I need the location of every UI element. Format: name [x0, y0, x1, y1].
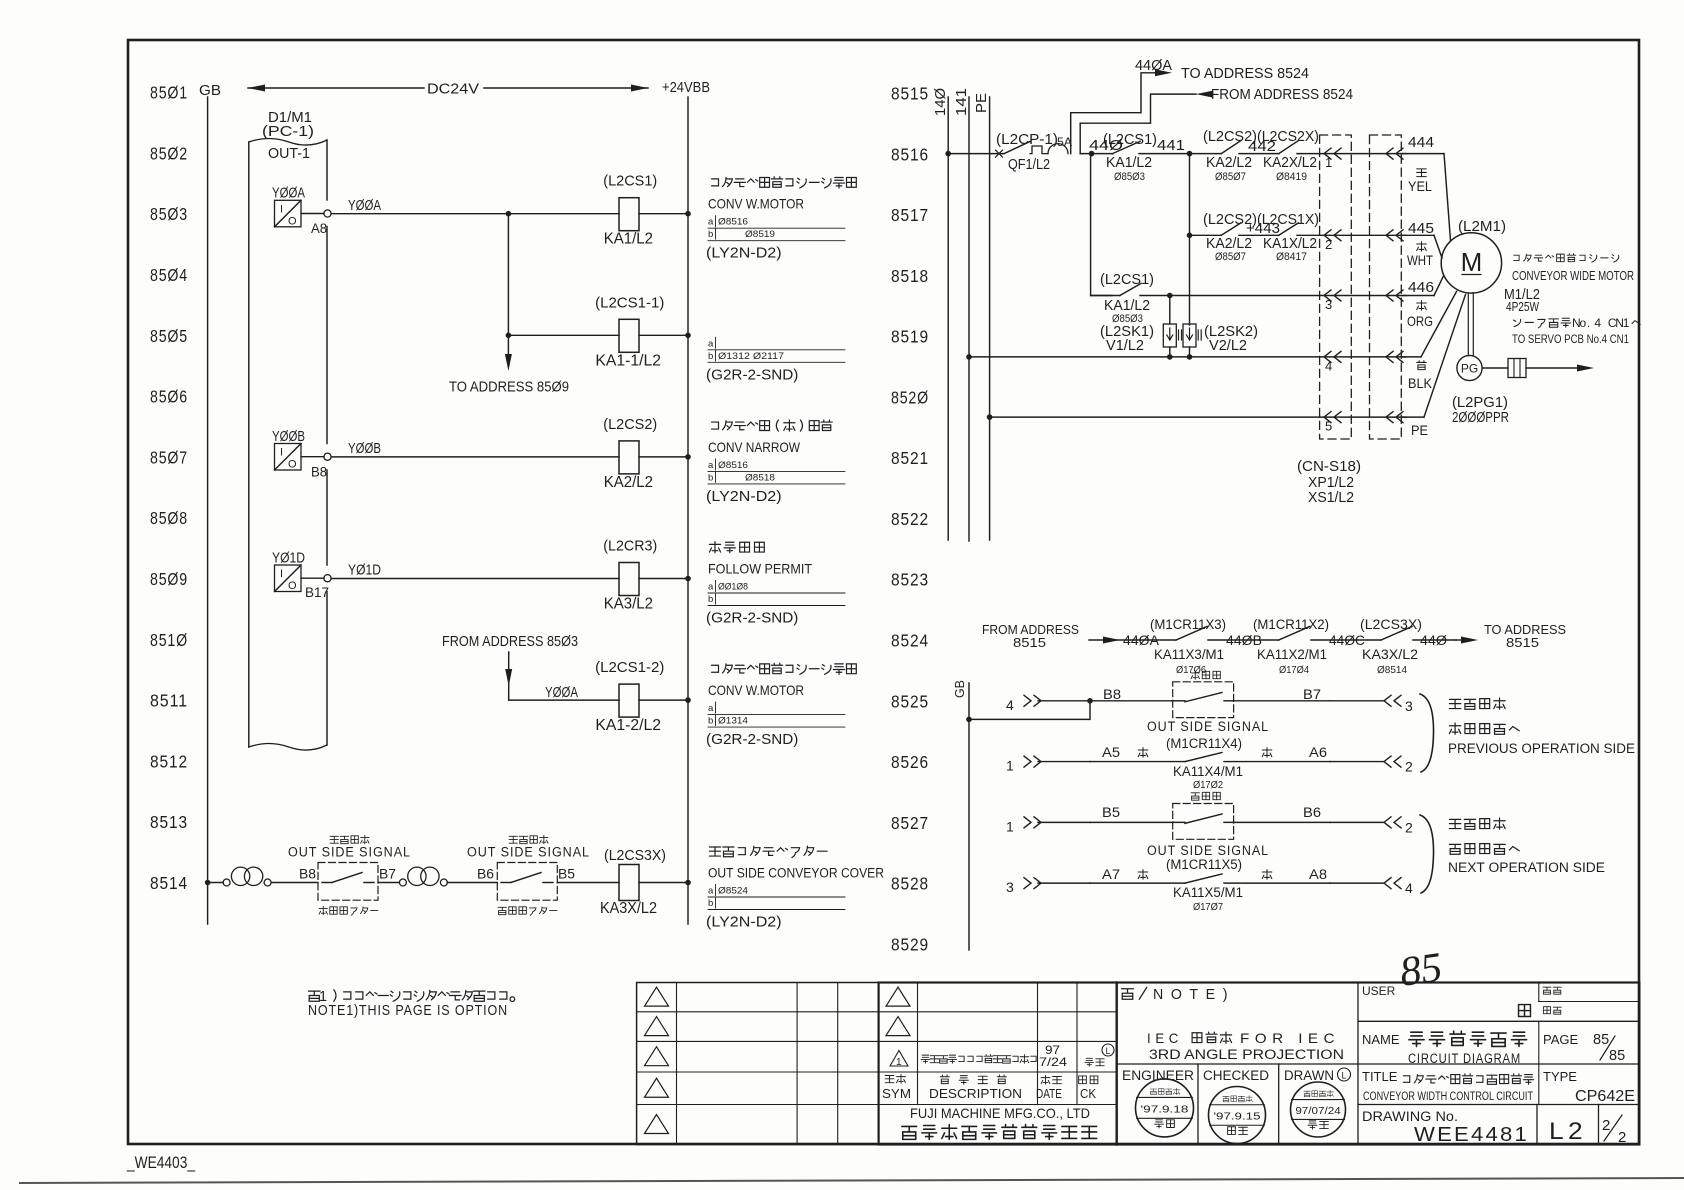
svg-text:(G2R-2-SND): (G2R-2-SND) [706, 366, 798, 383]
svg-text:44ØC: 44ØC [1329, 633, 1365, 648]
motor shaft [1467, 293, 1469, 356]
entry arrow 4 row 8525 [1006, 695, 1090, 713]
svg-text:PAGE: PAGE [1543, 1032, 1578, 1047]
svg-text:(LY2N-D2): (LY2N-D2) [706, 488, 782, 505]
svg-text:B8: B8 [299, 867, 316, 882]
NAME cell [1362, 1031, 1527, 1066]
svg-text:A8: A8 [311, 220, 327, 236]
exit arrow 4 row 8528 [1330, 878, 1413, 897]
svg-text:KA11X2/M1: KA11X2/M1 [1257, 647, 1327, 662]
svg-text:444: 444 [1408, 135, 1434, 151]
svg-text:2ØØØPPR: 2ØØØPPR [1452, 409, 1509, 426]
svg-text:YØØA: YØØA [348, 198, 381, 214]
junction 141 row V [966, 354, 972, 360]
motor wire PE [1402, 295, 1466, 439]
contact KA11X2/M1 (M1CR11X2) [1253, 617, 1381, 676]
svg-text:A7: A7 [1102, 867, 1120, 882]
header DESCRIPTION [929, 1075, 1022, 1101]
wire branch 440 down to row 8518 [1091, 154, 1112, 296]
svg-text:FROM ADDRESS 8524: FROM ADDRESS 8524 [1211, 87, 1353, 103]
svg-text:(L2CS1-2): (L2CS1-2) [595, 659, 664, 676]
svg-text:V1/L2: V1/L2 [1106, 338, 1144, 354]
svg-text:85Ø5: 85Ø5 [150, 326, 188, 346]
wire GB to 8525 [966, 698, 1093, 722]
svg-text:B5: B5 [558, 867, 575, 882]
svg-text:GB: GB [199, 82, 221, 99]
stamp checked yamamoto [1209, 1087, 1266, 1144]
svg-text:YØ1D: YØ1D [348, 563, 381, 579]
DRAWING No cell [1362, 1109, 1529, 1146]
junction V1 bottom [1167, 354, 1173, 360]
wire 8516 segment 2 [1080, 153, 1113, 155]
PLC output Y00A [272, 186, 331, 237]
svg-text:DC24V: DC24V [427, 81, 479, 98]
svg-text:85Ø2: 85Ø2 [150, 143, 188, 163]
svg-text:8524: 8524 [891, 631, 929, 651]
cable pass-through symbol 2 [399, 867, 447, 886]
IEC label [1147, 1030, 1340, 1046]
node GB right half [952, 680, 969, 950]
svg-text:(M1CR11X2): (M1CR11X2) [1253, 617, 1329, 632]
wire row V 8519 [969, 356, 1320, 358]
svg-text:KA2/L2: KA2/L2 [604, 474, 653, 491]
wire from-address-8524 branch [1080, 91, 1213, 154]
exit arrow 2 row 8526 [1330, 756, 1413, 775]
wire 8527 [1090, 821, 1173, 823]
door switch previous process row 8525 [1173, 682, 1234, 718]
svg-text:PE: PE [973, 93, 990, 113]
wire 8524 with arrow [1089, 637, 1176, 644]
motor wire 446 orange [1402, 276, 1444, 329]
motor M (L2M1) [1441, 219, 1506, 293]
svg-text:B5: B5 [1102, 805, 1120, 820]
svg-text:Ø85Ø3: Ø85Ø3 [1114, 171, 1145, 183]
svg-text:Ø8514: Ø8514 [1377, 664, 1407, 676]
wire 8525 [1090, 700, 1173, 702]
label gaibu shingo 1 [330, 835, 369, 843]
svg-text:8515: 8515 [1506, 635, 1539, 650]
note header [1122, 986, 1236, 1003]
svg-text:ORG: ORG [1407, 313, 1433, 329]
svg-text:8517: 8517 [891, 205, 929, 225]
connector pin 2 arrows [1320, 230, 1406, 252]
bus GB vertical [207, 97, 209, 924]
svg-text:USER: USER [1362, 984, 1396, 998]
svg-text:(L2CS2): (L2CS2) [603, 416, 657, 433]
connector pin 5 arrows [1320, 412, 1406, 434]
svg-text:ØØ1Ø8: ØØ1Ø8 [718, 582, 748, 593]
svg-text:DRAWN: DRAWN [1284, 1068, 1334, 1083]
svg-text:8529: 8529 [891, 934, 929, 954]
svg-text:441: 441 [1157, 138, 1185, 154]
junction 441 [1187, 151, 1193, 157]
svg-text:TO ADDRESS 85Ø9: TO ADDRESS 85Ø9 [449, 380, 569, 396]
svg-text:CHECKED: CHECKED [1203, 1068, 1269, 1083]
wire Y00B 8507 [331, 441, 619, 457]
svg-text:97/07/24: 97/07/24 [1295, 1106, 1341, 1117]
brace next operation [1420, 815, 1434, 893]
svg-text:14Ø: 14Ø [932, 88, 949, 116]
wire 8514 segment 4 [447, 882, 497, 884]
PAGE cell [1543, 1032, 1625, 1064]
connector pin 1 arrows [1320, 148, 1406, 170]
svg-text:CIRCUIT DIAGRAM: CIRCUIT DIAGRAM [1408, 1051, 1521, 1066]
svg-text:85Ø1: 85Ø1 [150, 83, 188, 103]
encoder PG (L2PG1) 2000PPR [1452, 355, 1594, 426]
svg-text:KA2/L2: KA2/L2 [1206, 236, 1252, 252]
PLC module D1/M1 (PC-1) OUT-1 box [249, 109, 327, 750]
svg-text:GB: GB [952, 680, 967, 698]
svg-text:I: I [280, 203, 283, 215]
svg-text:CONV W.MOTOR: CONV W.MOTOR [708, 682, 804, 698]
svg-text:85Ø9: 85Ø9 [150, 569, 188, 589]
svg-text:TYPE: TYPE [1543, 1069, 1577, 1084]
wire 8514 segment 2 [271, 882, 318, 884]
revision row 1 triangle [890, 1051, 908, 1067]
label gaibu shingo next [1448, 818, 1605, 875]
arrow to address 8515 [1461, 637, 1478, 644]
label CN-S18 [1297, 459, 1361, 506]
svg-text:L2: L2 [1549, 1118, 1587, 1145]
svg-text:DRAWING No.: DRAWING No. [1362, 1109, 1458, 1124]
svg-text:Ø8524: Ø8524 [718, 886, 748, 897]
svg-text:1: 1 [1623, 316, 1630, 330]
revision description [921, 1055, 1036, 1064]
svg-text:(M1CR11X3): (M1CR11X3) [1150, 617, 1226, 632]
svg-text:Ø8417: Ø8417 [1276, 251, 1307, 263]
svg-text:CONVEYOR WIDE MOTOR: CONVEYOR WIDE MOTOR [1512, 269, 1634, 283]
wire 8505 [508, 334, 619, 336]
svg-text:KA1/L2: KA1/L2 [604, 231, 653, 248]
junction surge killer 1 top [1167, 293, 1173, 299]
svg-text:(PC-1): (PC-1) [262, 123, 314, 140]
junction V2 bottom [1187, 354, 1193, 360]
svg-text:Ø17Ø4: Ø17Ø4 [1279, 664, 1309, 676]
header DATE [1036, 1075, 1062, 1101]
title block left revision table [637, 983, 879, 1145]
svg-text:2: 2 [1405, 759, 1413, 775]
label orange 2 row 8528 [1262, 870, 1272, 880]
junction 440 [1089, 151, 1095, 157]
brace previous operation [1420, 694, 1434, 772]
svg-text:L: L [1341, 1071, 1346, 1081]
svg-text:WEE4481: WEE4481 [1414, 1124, 1529, 1146]
relay coil KA1/L2 (L2CS1) [603, 173, 691, 248]
svg-text:b: b [708, 229, 713, 240]
contact KA1X/L2 (L2CS1X) row 8517 [1257, 212, 1320, 263]
svg-text:PE: PE [1411, 422, 1428, 438]
surge killer V1/L2 (L2SK1) [1100, 296, 1182, 357]
wire 8514 segment 3 [378, 882, 399, 884]
svg-text:(L2M1): (L2M1) [1458, 219, 1506, 235]
contact KA1/L2 (L2CS1) row 8516 [1103, 132, 1190, 183]
svg-text:8518: 8518 [891, 266, 929, 286]
svg-text:YEL: YEL [1408, 178, 1432, 194]
svg-text:85Ø7: 85Ø7 [150, 447, 188, 467]
contact KA2/L2 (L2CS2) row 8516 [1190, 129, 1279, 183]
svg-text:Ø85Ø7: Ø85Ø7 [1215, 171, 1246, 183]
svg-text:A8: A8 [1309, 867, 1327, 882]
bunban seiban cells [1543, 987, 1561, 1014]
svg-text:a: a [708, 460, 714, 471]
svg-text:O: O [288, 580, 297, 592]
entry arrow 3 row 8528 [1006, 878, 1090, 896]
svg-text:3: 3 [1325, 297, 1332, 312]
svg-text:B6: B6 [477, 867, 494, 882]
svg-text:Ø8419: Ø8419 [1276, 171, 1307, 183]
svg-text:a: a [708, 338, 714, 349]
bus +24VBB vertical [687, 97, 689, 924]
svg-text:TO ADDRESS 8524: TO ADDRESS 8524 [1181, 66, 1309, 82]
svg-text:4P25W: 4P25W [1506, 300, 1539, 314]
label maekotei cover [319, 906, 378, 915]
svg-text:YØ1D: YØ1D [272, 551, 305, 567]
svg-text:8515: 8515 [891, 84, 929, 104]
revision date 97 7/24 [1039, 1043, 1067, 1069]
header CK [1079, 1076, 1098, 1101]
svg-text:3: 3 [1006, 879, 1014, 895]
svg-text:(L2CS3X): (L2CS3X) [604, 847, 666, 864]
wire 8527 right [1234, 821, 1330, 823]
wire Y01D 8509 [331, 563, 619, 579]
wire to-address-8524 branch [1071, 69, 1172, 153]
terminal x mark [996, 150, 1003, 157]
contact KA11X4/M1 (M1CR11X4) [1090, 736, 1330, 791]
svg-text:85Ø8: 85Ø8 [150, 508, 188, 528]
svg-text:OUT SIDE CONVEYOR COVER: OUT SIDE CONVEYOR COVER [708, 866, 884, 881]
svg-text:B8: B8 [1103, 687, 1121, 702]
junction 8503 branch [506, 211, 512, 217]
svg-text:YØØA: YØØA [545, 685, 578, 701]
wire branch to 8505 and to-address-8509 arrow [505, 214, 512, 371]
svg-text:KA11X4/M1: KA11X4/M1 [1173, 764, 1243, 779]
svg-text:_WE4403_: _WE4403_ [126, 1153, 195, 1172]
connector XP1/XS1 dashed box 1 [1320, 135, 1352, 439]
label atokotei cover [498, 907, 557, 915]
company FUJI MACHINE MFG.CO., LTD [902, 1105, 1097, 1139]
PLC output Y00B [272, 429, 331, 480]
label maekotei row 8525 [1191, 671, 1220, 679]
relay coil KA1-2/L2 (L2CS1-2) [595, 659, 691, 734]
svg-text:a: a [708, 886, 714, 897]
motor wire 4 black [1402, 292, 1457, 392]
svg-text:2: 2 [1602, 1117, 1610, 1134]
svg-text:Ø8516: Ø8516 [718, 460, 748, 471]
svg-text:OUT SIDE SIGNAL: OUT SIDE SIGNAL [467, 845, 590, 860]
svg-text:Ø1314: Ø1314 [718, 716, 748, 727]
bus PE vertical [973, 93, 990, 540]
svg-text:8521: 8521 [891, 448, 929, 468]
svg-text:O: O [288, 215, 297, 227]
svg-text:B17: B17 [305, 584, 329, 600]
svg-text:8525: 8525 [891, 691, 929, 711]
svg-text:KA1/L2: KA1/L2 [1104, 298, 1150, 314]
address column 8501-8514 [150, 83, 188, 893]
label gaibu shingo previous [1448, 698, 1635, 756]
svg-text:1: 1 [1006, 818, 1014, 834]
svg-text:85Ø4: 85Ø4 [150, 265, 188, 285]
sheet 2/2 [1602, 1115, 1626, 1146]
entry arrow 1 row 8527 [1006, 817, 1090, 835]
svg-text:YØØA: YØØA [272, 186, 305, 202]
label gaibu shingo 2 [509, 835, 548, 843]
USER cell [1362, 984, 1530, 1016]
svg-text:V2/L2: V2/L2 [1209, 338, 1247, 354]
svg-text:KA1/L2: KA1/L2 [1106, 155, 1152, 171]
svg-text:a: a [708, 703, 714, 714]
svg-text:I: I [280, 447, 283, 459]
svg-text:B7: B7 [379, 867, 396, 882]
svg-text:2: 2 [1405, 819, 1413, 835]
cable pass-through symbol 1 [223, 867, 271, 886]
svg-text:FROM ADDRESS 85Ø3: FROM ADDRESS 85Ø3 [442, 634, 578, 650]
svg-text:KA2X/L2: KA2X/L2 [1263, 155, 1317, 171]
header SYM [882, 1074, 911, 1101]
svg-text:8513: 8513 [150, 812, 188, 832]
description 8514 outside conveyor cover [706, 846, 884, 930]
svg-text:b: b [708, 472, 713, 483]
svg-text:(G2R-2-SND): (G2R-2-SND) [706, 610, 798, 627]
TITLE cell [1362, 1069, 1534, 1103]
svg-text:b: b [708, 594, 713, 605]
svg-text:1: 1 [896, 1057, 902, 1068]
svg-text:8527: 8527 [891, 813, 929, 833]
wire 8516 from bus to breaker [948, 153, 1004, 155]
description 8503 conveyor width motor start [706, 177, 856, 262]
svg-text:L: L [1105, 1046, 1110, 1056]
svg-text:Ø8518: Ø8518 [745, 472, 775, 483]
revision by esaka [1085, 1058, 1104, 1066]
exit arrow 3 row 8525 [1330, 695, 1413, 714]
connector dashed box 2 [1370, 135, 1402, 439]
svg-text:QF1/L2: QF1/L2 [1008, 157, 1050, 173]
svg-text:B7: B7 [1303, 687, 1321, 702]
svg-text:TITLE: TITLE [1362, 1069, 1398, 1084]
svg-text:FUJI MACHINE MFG.CO., LTD: FUJI MACHINE MFG.CO., LTD [910, 1105, 1090, 1121]
label orange 2 row 8526 [1262, 748, 1272, 758]
svg-text:o: o [1579, 316, 1586, 330]
svg-text:KA1-2/L2: KA1-2/L2 [595, 717, 661, 734]
label conveyor wide motor [1504, 254, 1634, 314]
svg-text:85Ø6: 85Ø6 [150, 387, 188, 407]
svg-text:(M1CR11X4): (M1CR11X4) [1166, 736, 1242, 751]
svg-text:+24VBB: +24VBB [662, 79, 710, 96]
svg-text:TO SERVO PCB No.4 CN1: TO SERVO PCB No.4 CN1 [1512, 334, 1629, 346]
junction 140 8516 [945, 151, 951, 157]
svg-text:NOTE): NOTE) [1153, 986, 1235, 1003]
svg-text:CP642E: CP642E [1575, 1088, 1635, 1105]
svg-text:Ø8516: Ø8516 [718, 217, 748, 228]
svg-text:Ø17Ø2: Ø17Ø2 [1193, 779, 1223, 791]
svg-text:8519: 8519 [891, 327, 929, 347]
svg-text:(G2R-2-SND): (G2R-2-SND) [706, 731, 798, 748]
contact KA1/L2 (L2CS1) row 8518 [1091, 272, 1320, 325]
motor wire 445 white [1402, 221, 1442, 268]
svg-text:1: 1 [1006, 758, 1014, 774]
wire 8511 [509, 685, 619, 701]
stamp drawn esaka [1291, 1082, 1346, 1137]
svg-text:NAME: NAME [1362, 1032, 1400, 1047]
svg-text:B6: B6 [1303, 805, 1321, 820]
connector pin 3 arrows [1320, 290, 1406, 312]
relay coil KA1-1/L2 (L2CS1-1) [595, 294, 691, 369]
svg-text:85: 85 [1593, 1032, 1609, 1048]
svg-text:A6: A6 [1309, 745, 1327, 760]
svg-text:8512: 8512 [150, 751, 188, 771]
relay coil KA3/L2 (L2CR3) [603, 538, 691, 613]
svg-text:DATE: DATE [1036, 1087, 1062, 1101]
svg-text:KA3X/L2: KA3X/L2 [1362, 647, 1418, 662]
svg-text:IEC: IEC [1147, 1030, 1183, 1046]
bus 140 vertical [932, 88, 949, 540]
svg-text:85Ø3: 85Ø3 [150, 204, 188, 224]
label atokotei row 8527 [1191, 792, 1220, 800]
svg-text:SYM: SYM [882, 1087, 911, 1101]
junction 8505 [506, 333, 512, 339]
door switch next process row 8527 [1173, 804, 1234, 840]
svg-text:4: 4 [1325, 358, 1332, 373]
contact KA3X/L2 (L2CS3X) row 8524 [1360, 617, 1456, 676]
stamp engineer adachi [1136, 1079, 1194, 1137]
svg-text:Ø1312 Ø2117: Ø1312 Ø2117 [718, 351, 784, 362]
svg-text:8523: 8523 [891, 570, 929, 590]
scan edge line bottom [20, 1178, 1684, 1183]
description 8507 conveyor narrow [706, 420, 845, 505]
svg-text:XS1/L2: XS1/L2 [1308, 490, 1354, 506]
connector pin 4 arrows [1320, 351, 1406, 373]
svg-text:WHT: WHT [1407, 252, 1433, 268]
svg-text:OUT SIDE SIGNAL: OUT SIDE SIGNAL [1147, 719, 1269, 734]
svg-text:YØØB: YØØB [348, 441, 381, 457]
wire branch 441 down [1189, 154, 1191, 325]
svg-text:(L2CS1-1): (L2CS1-1) [595, 294, 664, 311]
svg-text:7/24: 7/24 [1039, 1055, 1067, 1069]
svg-text:KA1-1/L2: KA1-1/L2 [595, 352, 661, 369]
svg-text:(L2CR3): (L2CR3) [603, 538, 657, 555]
svg-text:4: 4 [1594, 316, 1601, 330]
label orange 1 row 8528 [1138, 870, 1148, 880]
wire 8514 left segment [208, 882, 224, 884]
svg-text:b: b [708, 716, 713, 727]
svg-text:KA1X/L2: KA1X/L2 [1263, 236, 1317, 252]
svg-text:4: 4 [1405, 880, 1413, 896]
label FROM ADDRESS 8515 [982, 622, 1079, 650]
svg-text:PG: PG [1461, 362, 1478, 376]
svg-text:446: 446 [1408, 280, 1434, 296]
svg-text:FOLLOW PERMIT: FOLLOW PERMIT [708, 561, 812, 577]
junction PE row [987, 414, 993, 420]
svg-text:ENGINEER: ENGINEER [1122, 1068, 1194, 1083]
svg-text:Ø17Ø6: Ø17Ø6 [1176, 664, 1206, 676]
svg-text:8522: 8522 [891, 509, 929, 529]
note text japanese [308, 989, 514, 1005]
svg-text:Ø8519: Ø8519 [745, 229, 775, 240]
svg-text:O: O [288, 459, 297, 471]
door switch box next process [497, 863, 557, 901]
svg-text:A5: A5 [1102, 745, 1120, 760]
svg-text:8528: 8528 [891, 874, 929, 894]
wire from-address-8503 arrow into 8511 [505, 652, 512, 700]
svg-text:(LY2N-D2): (LY2N-D2) [706, 245, 782, 262]
PLC output Y01D [272, 551, 331, 601]
svg-text:44ØA: 44ØA [1123, 633, 1159, 648]
svg-text:Ø17Ø7: Ø17Ø7 [1193, 901, 1223, 913]
svg-text:'97.9.18: '97.9.18 [1141, 1104, 1189, 1115]
svg-text:8526: 8526 [891, 752, 929, 772]
label orange 1 row 8526 [1138, 748, 1148, 758]
label TO ADDRESS 8515 [1484, 622, 1566, 650]
svg-text:(L2CS2X): (L2CS2X) [1257, 129, 1319, 145]
